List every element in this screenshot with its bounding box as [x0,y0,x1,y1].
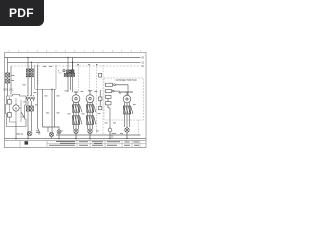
wire bundle mid-left [43,89,55,132]
wire bundle P1 [74,102,79,130]
fuse F2 [71,58,74,74]
fuse block F1 [26,69,33,77]
node O [89,138,91,140]
svg-text:CONNECTOR 51C: CONNECTOR 51C [116,79,138,82]
svg-text:0.5: 0.5 [59,73,63,75]
bus rail 15 [8,61,141,63]
wire bundle P3 [125,102,130,128]
node E [77,64,78,65]
terminal strip X2 [27,95,35,101]
svg-text:DIN 14C: DIN 14C [4,87,14,91]
dashed box U1 [104,78,144,120]
node A [27,57,29,59]
dashed divider mid [78,64,80,92]
node L [15,138,17,140]
svg-text:M: M [15,106,18,110]
instrument P2 [86,91,94,103]
wire feed left [8,58,12,97]
wire bundle P2 [88,102,93,130]
title block mid [47,143,146,145]
connector X5 [86,105,96,125]
wire N1 internal bus [19,100,21,122]
lamp H1 [27,131,32,136]
node F [88,64,89,65]
wire drop C [68,58,73,71]
dashed divider right [96,64,98,133]
connector X1 [6,73,10,83]
bus rail 30 [5,57,141,59]
title block top [5,139,147,141]
ground G6 [57,130,61,139]
gauge P3 [121,92,133,103]
ground bus [5,138,147,140]
ground G4 [108,128,112,138]
node D [72,62,74,64]
sensor B1 [99,90,102,110]
ground G5 [125,128,129,139]
wire C down [68,76,73,92]
node P [58,138,59,139]
svg-text:61: 61 [141,64,144,68]
dashed divider mid2 [89,64,91,92]
relay K2 [106,102,112,114]
connector X4 [72,105,82,125]
fuse F5 [99,73,102,77]
svg-text:15: 15 [141,60,144,64]
node C [67,57,69,59]
title block dividers [20,140,140,147]
resistor R1 [8,100,12,105]
fuse F4 [106,90,121,95]
wire G1 [43,127,55,132]
node H [51,89,52,90]
ground G1 [49,132,53,138]
dashed interior boundary rail 61 [11,65,141,67]
wire drop A [28,58,32,70]
title text 1 [49,141,139,146]
fuse F3 [106,83,129,95]
node R [126,138,127,139]
instrument P1 [72,92,80,103]
ground G3 [88,129,92,138]
dashed divider left [37,63,39,84]
node Q [109,138,110,139]
switch S1 [21,112,25,117]
wire inside N1 [9,97,16,122]
wire N1 to ground rail [15,122,17,139]
ground rail segment right [56,134,141,136]
wire X3 down [28,101,32,139]
relay K1 [63,70,75,77]
frame top ruler [5,51,147,53]
switch S2 [36,128,40,134]
connector X6 [123,106,133,114]
resistor R2 [8,113,12,118]
resistor R3 [106,95,112,101]
ruler tick numbers [9,50,141,51]
wire header mid-left [35,65,56,90]
node N [75,138,77,140]
PDF badge [0,0,44,26]
frame border [5,52,147,147]
motor M1 [13,105,19,111]
wire G6 [55,127,60,130]
wire colour labels [12,66,136,134]
ground G2 [74,129,78,138]
node B [31,62,33,64]
dashed divider right2 [102,65,104,135]
wire U1 drop [109,113,111,128]
node M2 [27,138,29,140]
logo mark [25,141,29,144]
connector X3 [26,106,33,111]
control unit N1 boundary [6,95,27,127]
svg-text:M6 31: M6 31 [17,133,24,136]
wire S2 drop [37,65,39,128]
svg-text:30: 30 [141,56,144,60]
node G [96,64,97,65]
wire A down [28,77,32,96]
dashed divider far right [138,120,140,135]
